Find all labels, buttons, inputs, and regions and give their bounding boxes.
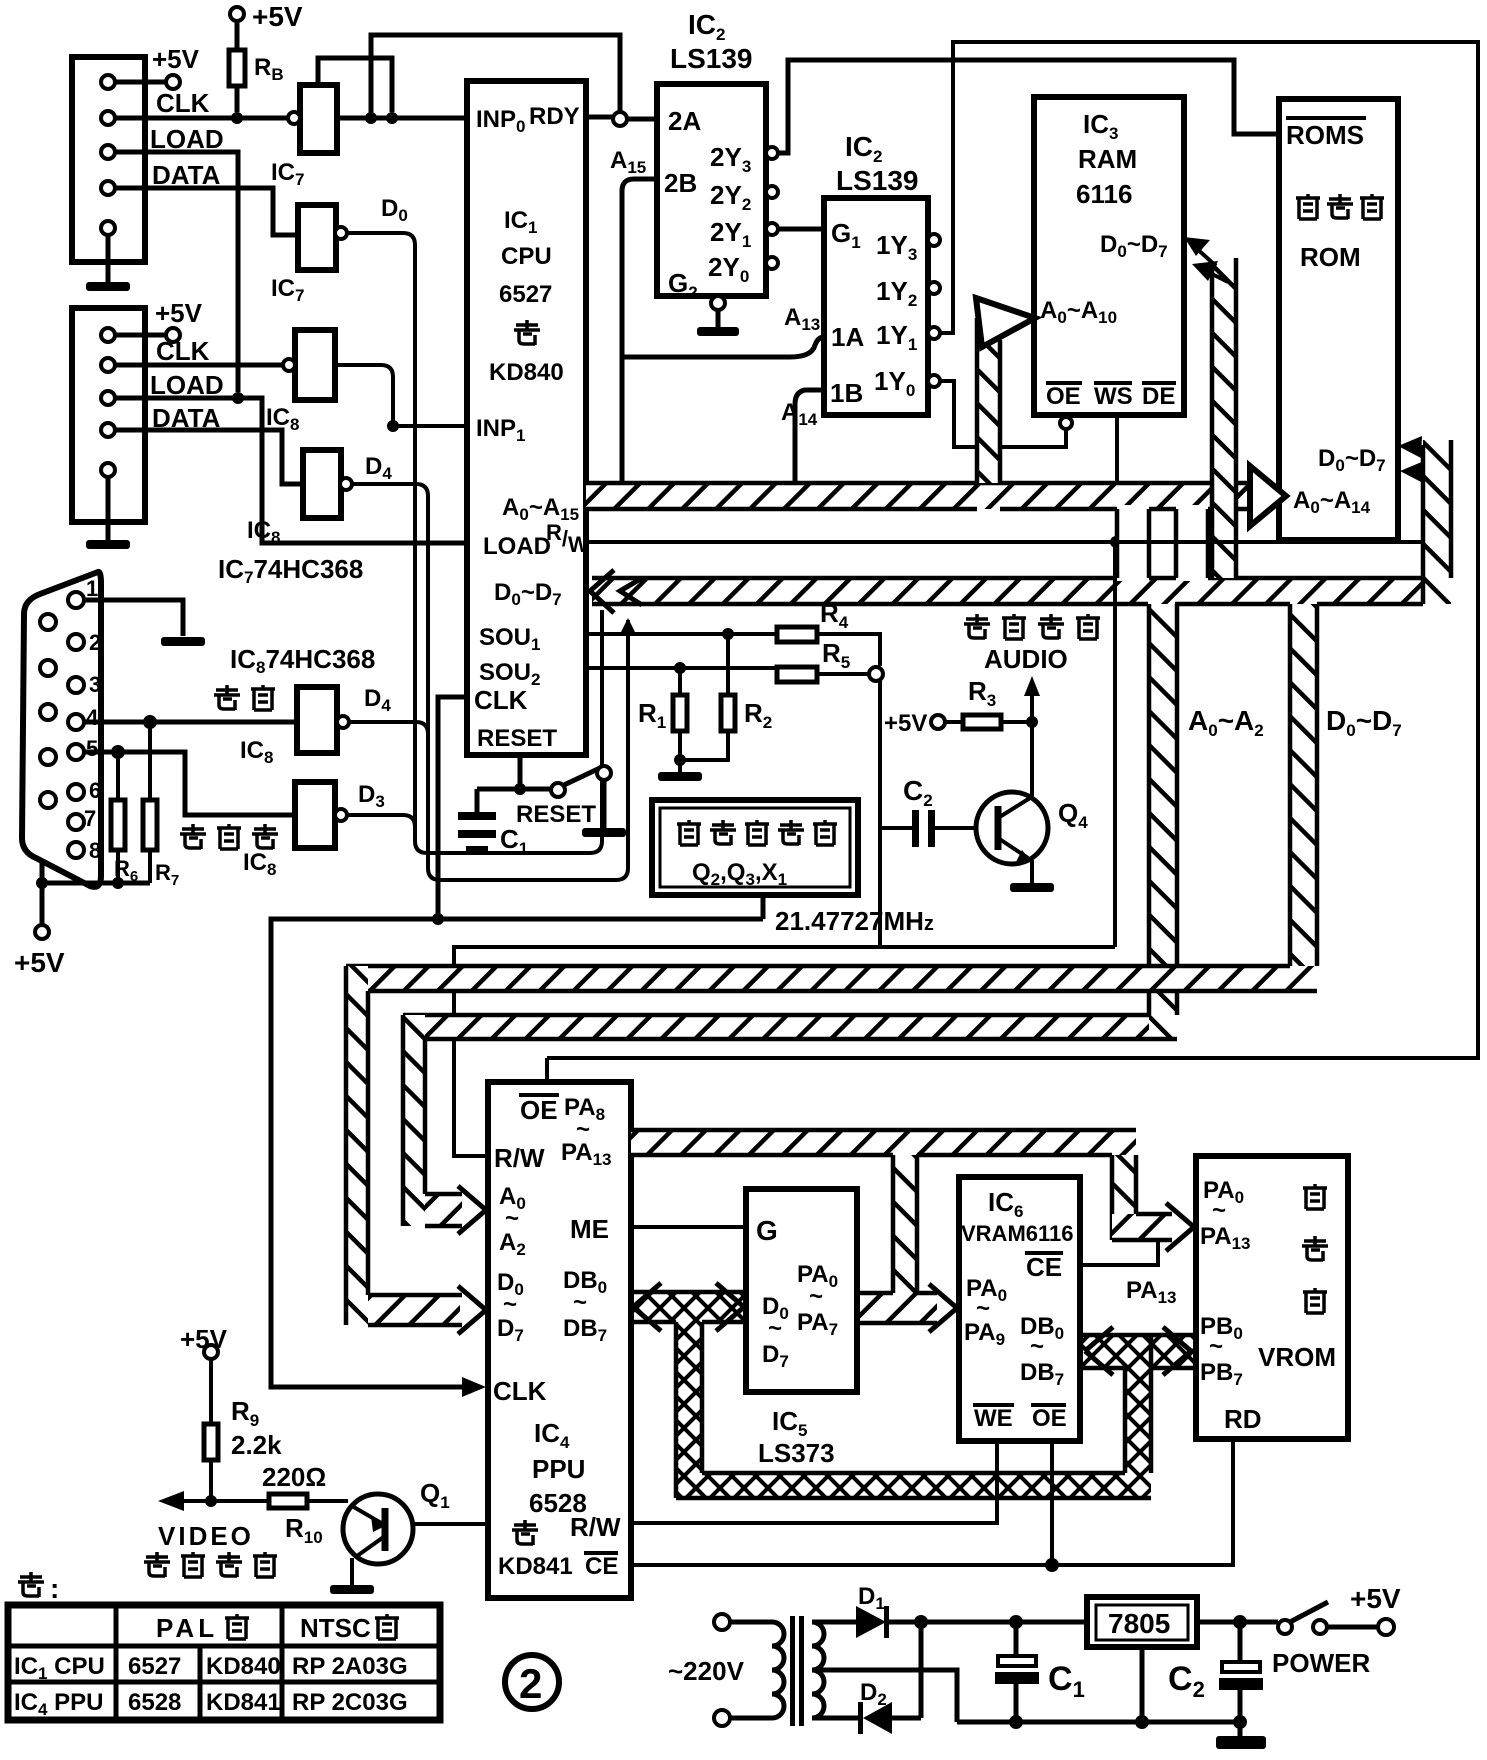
connector J2 (controller 2): [72, 308, 145, 522]
wire CE common line PPU to VROM RD: [631, 1439, 1233, 1565]
wire +5V pin J1: [115, 75, 180, 89]
resistor R3: [931, 715, 1032, 729]
bus arrow into ROM A0~A14: [1250, 466, 1286, 526]
svg-text:D0~D7: D0~D7: [1326, 705, 1402, 740]
label program card CJK rom: [1296, 194, 1384, 219]
svg-text:WS: WS: [1094, 383, 1133, 410]
buffer IC8d gun: [295, 782, 347, 848]
svg-text:KD840: KD840: [489, 359, 564, 386]
terminal +5V power: [1350, 1583, 1401, 1635]
svg-text:~: ~: [768, 1315, 782, 1342]
wire secondary top to D1: [812, 1620, 856, 1625]
wire CPU CLK to 21MHz line: [432, 697, 467, 925]
svg-text:6527: 6527: [128, 1653, 181, 1680]
pin label OE vram: [1031, 1405, 1067, 1432]
svg-text:IC4 PPU: IC4 PPU: [14, 1689, 103, 1719]
bus-2 arrow arm into PPU A0~A2: [425, 1186, 486, 1234]
bus D0~D7 horizontal: [592, 578, 1423, 604]
wire thin line to PPU RW: [454, 947, 1115, 1156]
wire from IC8b to data bus: [352, 484, 628, 880]
wire D4 from IC8a to CPU INP1: [335, 365, 467, 432]
ground J2: [86, 477, 130, 549]
wire CLK1 line to IC7 and CPU INP0: [115, 112, 467, 124]
svg-text:+5V: +5V: [14, 947, 65, 978]
xbus PPU DB to IC5 D: [631, 1283, 746, 1331]
buffer IC7a: [288, 85, 337, 153]
svg-text:5: 5: [86, 736, 98, 761]
svg-text:CE: CE: [1026, 1252, 1062, 1282]
switch POWER: [1278, 1602, 1379, 1634]
svg-text:2.2k: 2.2k: [231, 1430, 282, 1460]
svg-text:LS139: LS139: [836, 165, 919, 196]
latch IC5 LS373: [746, 1189, 857, 1392]
wire DATA2 to IC8b input: [115, 430, 303, 484]
wire PPU R/W to VRAM WE: [631, 1441, 997, 1523]
svg-text:RDY: RDY: [529, 103, 580, 130]
wire +5V pin J2: [115, 328, 180, 342]
svg-text:VRAM6116: VRAM6116: [961, 1221, 1074, 1246]
svg-text:OE: OE: [520, 1095, 558, 1125]
svg-text:220Ω: 220Ω: [262, 1462, 326, 1492]
pin label OE ppu: [519, 1095, 559, 1125]
svg-text:CLK: CLK: [156, 336, 210, 366]
decoder IC2 LS139 second: [824, 198, 928, 415]
wire RDY to LS139 2A: [586, 117, 657, 119]
node junction R4 R5: [869, 667, 883, 681]
wire 1Y0 to RAM OE: [940, 381, 1066, 447]
transistor Q1: [343, 1494, 413, 1564]
svg-text:+5V: +5V: [152, 44, 200, 74]
bus D column to ROM: [1423, 440, 1451, 604]
bus PA column down to VROM: [1112, 1155, 1136, 1240]
xbus riser to VRAM VROM bus: [1125, 1335, 1151, 1473]
svg-text:NTSC: NTSC: [300, 1613, 371, 1643]
table header PAL: [156, 1613, 249, 1643]
bus A0~A15 horizontal CPU to ROM: [586, 483, 1254, 509]
svg-text:2: 2: [89, 630, 101, 655]
bus PA8~13 from PPU: [631, 1130, 1136, 1155]
label trigger CJK: [214, 685, 275, 710]
wire SOU1 line: [586, 628, 777, 640]
wire R/W thin crossing slots: [1100, 540, 1421, 544]
svg-text:Q2,Q3,X1: Q2,Q3,X1: [692, 859, 787, 889]
svg-text:RD: RD: [1224, 1404, 1262, 1434]
svg-text:7: 7: [84, 806, 96, 831]
resistor R2: [680, 634, 735, 760]
pin bubbles 1Y3..1Y0: [928, 234, 940, 387]
node RDY/2A terminal: [613, 112, 627, 126]
wire secondary bottom to D2: [812, 1716, 858, 1721]
transformer T1 terminals: [714, 1614, 758, 1726]
bus IC5 to VRAM PA0~PA9: [857, 1284, 957, 1332]
svg-text:G: G: [756, 1215, 778, 1246]
svg-text:KD840: KD840: [206, 1653, 281, 1680]
pin label CE ppu: [584, 1553, 618, 1580]
svg-text:1: 1: [86, 576, 98, 601]
pin label OE ram: [1046, 383, 1082, 410]
svg-text:CLK: CLK: [474, 685, 528, 715]
svg-text:LS139: LS139: [670, 43, 753, 74]
bus chevron into CPU D0~D7: [590, 570, 642, 613]
svg-text:OE: OE: [1046, 383, 1081, 410]
wire A15 from address bus to 2B: [622, 179, 657, 481]
svg-text:~: ~: [505, 1205, 519, 1232]
wire R/W branch down to PPU net: [1113, 542, 1117, 947]
wire Q4 collector to R3 node: [1026, 716, 1038, 796]
svg-text:~: ~: [1212, 1197, 1226, 1224]
resistor R7: [143, 722, 157, 883]
buffer IC7b: [298, 205, 347, 270]
bus-1 arrow arm into PPU D0~D7: [368, 1286, 486, 1334]
ground pin1: [161, 637, 205, 646]
wire pin5 gun signal to IC8d: [84, 745, 295, 815]
wire pin1 to ground: [84, 600, 183, 636]
wire LOAD R/W line CPU to D column: [586, 540, 1421, 544]
svg-text:IC874HC368: IC874HC368: [230, 644, 375, 677]
buffer IC8a: [283, 330, 335, 400]
svg-text:4: 4: [86, 705, 99, 730]
svg-text:+5V: +5V: [884, 710, 927, 737]
transistor Q4: [976, 792, 1048, 864]
svg-text:ROM: ROM: [1300, 242, 1361, 272]
svg-text:LS373: LS373: [758, 1438, 835, 1468]
wire pin4 trigger to IC8c: [84, 715, 297, 729]
wire data-bus tap arrow (controller data): [620, 618, 636, 634]
ROM box program card: [1279, 99, 1398, 540]
resistor R1: [673, 668, 687, 760]
wire D0 from IC7b to data bus: [347, 233, 602, 853]
capacitor C2 audio: [912, 810, 977, 847]
wire audio node down to C2: [880, 681, 912, 828]
PPU IC4 6528/KD841: [488, 1082, 631, 1598]
svg-text:VIDEO: VIDEO: [158, 1521, 254, 1551]
transformer T1 core: [790, 1616, 804, 1726]
svg-text:CLK: CLK: [156, 88, 210, 118]
wire LOAD2 to CPU LOAD: [115, 392, 467, 543]
svg-text:RP 2C03G: RP 2C03G: [292, 1689, 408, 1716]
svg-text:~: ~: [503, 1291, 517, 1318]
svg-text:RESET: RESET: [477, 725, 557, 752]
VROM box program card: [1196, 1156, 1348, 1439]
pin G2 bubble and ground: [697, 296, 739, 336]
wire net C: 1Y1 up over right side down to OE line: [547, 42, 1478, 1058]
svg-text:KD841: KD841: [206, 1689, 281, 1716]
svg-text:6: 6: [89, 778, 101, 803]
svg-text:6527: 6527: [499, 281, 552, 308]
svg-text:CPU: CPU: [501, 243, 552, 270]
svg-text:LOAD: LOAD: [483, 533, 551, 560]
wire SOU2 line: [586, 662, 777, 674]
bus A horizontal to PPU (bus-2): [403, 1015, 1177, 1039]
wire 21.47727MHz line to PPU CLK: [271, 919, 763, 1387]
bus arrows into RAM D0~D7: [1184, 237, 1228, 282]
svg-text:6528: 6528: [128, 1689, 181, 1716]
wire 2Y1 to G1: [778, 227, 824, 232]
svg-text:KD841: KD841: [498, 1553, 573, 1580]
svg-text:2A: 2A: [668, 106, 701, 136]
pulse generator box: [652, 800, 858, 895]
svg-text:WE: WE: [974, 1405, 1013, 1432]
svg-text:~: ~: [976, 1295, 990, 1322]
regulator 7805: [1087, 1597, 1197, 1647]
RAM IC3 6116: [1034, 97, 1184, 415]
svg-text:+5V: +5V: [1350, 1583, 1401, 1614]
svg-text:R/W: R/W: [570, 1512, 621, 1542]
svg-text:+5V: +5V: [155, 298, 203, 328]
pin label ROMS: [1286, 118, 1366, 150]
CPU IC1 6527/KD840: [467, 81, 586, 755]
wire 7805 output: [1197, 1615, 1278, 1629]
pin label DE ram: [1142, 383, 1176, 410]
svg-text:OE: OE: [1032, 1405, 1067, 1432]
wire IC7a top loop: [318, 58, 392, 112]
white slot ch1 through buses: [1117, 505, 1149, 581]
diode D1: [856, 1606, 921, 1638]
svg-text:1A: 1A: [831, 322, 864, 352]
capacitor C2 power: [1219, 1622, 1263, 1722]
svg-text:1B: 1B: [830, 378, 863, 408]
svg-text:RP 2A03G: RP 2A03G: [292, 1653, 408, 1680]
svg-text:R/W: R/W: [494, 1143, 545, 1173]
resistor RB: [229, 7, 245, 112]
bus column D0~D7 mid: [1290, 604, 1317, 991]
wire A13 to 1A: [622, 337, 824, 357]
wire RAM WS to R/W line: [1110, 415, 1122, 548]
wire VIDEO output with arrow: [158, 1491, 269, 1511]
wire VRAM CE to PA13 tap: [1080, 1242, 1158, 1265]
decoder IC2 LS139 first: [657, 84, 766, 296]
svg-text:D0~D7: D0~D7: [494, 579, 562, 609]
ground R1 R2: [658, 754, 702, 781]
bus branch to RAM A0~A10: [977, 316, 1000, 483]
resistor R4: [777, 627, 880, 666]
arrowhead into PPU CLK: [462, 1377, 486, 1397]
label note CJK: [18, 1572, 59, 1604]
wire 2Y3 to ROMS net: [778, 60, 1279, 153]
svg-text:A0~A2: A0~A2: [1188, 705, 1264, 740]
svg-text:CLK: CLK: [493, 1376, 547, 1406]
svg-text:DE: DE: [1142, 383, 1175, 410]
svg-text:AUDIO: AUDIO: [984, 644, 1068, 674]
node RAM OE bubble: [1060, 417, 1072, 429]
wire A14 to 1B: [795, 390, 824, 481]
capacitor C1 power: [995, 1622, 1039, 1722]
pin label CE vram: [1025, 1252, 1063, 1282]
VRAM IC6: [959, 1177, 1080, 1441]
wire RESET pin down: [477, 755, 551, 795]
pin number labels DB9: [84, 576, 101, 863]
transformer T1 secondary winding: [812, 1622, 824, 1718]
wire ME to G: [631, 1225, 746, 1229]
svg-text:POWER: POWER: [1272, 1648, 1370, 1678]
buffer IC8b: [303, 450, 352, 518]
wire LOAD1 down to LOAD2: [115, 152, 238, 392]
wire Q4 emitter to ground: [1010, 860, 1054, 892]
value label or CJK ppu: [512, 1520, 538, 1545]
bus arrows into ROM D0~D7: [1398, 436, 1424, 483]
power +5V terminal: [35, 883, 49, 939]
wire center tap to ground rail: [812, 1670, 957, 1722]
bus D horizontal to PPU (bus-1): [346, 966, 1317, 991]
pin label WE vram: [973, 1405, 1014, 1432]
wire DC input rail to 7805: [921, 1615, 1087, 1629]
pin label WS ram: [1094, 383, 1133, 410]
svg-text:D0~D7: D0~D7: [1318, 445, 1386, 475]
svg-text:ROMS: ROMS: [1286, 120, 1364, 150]
svg-text:+5V: +5V: [252, 1, 303, 32]
svg-text:VROM: VROM: [1258, 1342, 1336, 1372]
svg-text:~220V: ~220V: [668, 1656, 745, 1686]
svg-text:~: ~: [1209, 1333, 1223, 1360]
label program card CJK vrom vertical: [1302, 1184, 1328, 1313]
svg-text:IC1 CPU: IC1 CPU: [14, 1653, 105, 1683]
wire ground rail: [957, 1715, 1247, 1729]
svg-text:8: 8: [89, 838, 101, 863]
resistor R10: [269, 1494, 348, 1508]
svg-text:~: ~: [573, 1289, 587, 1316]
wire VRAM OE down to CE line: [1045, 1441, 1059, 1572]
table header NTSC: [300, 1613, 399, 1643]
wire D4 from IC8c joins bus riser: [349, 722, 428, 734]
svg-text:~: ~: [809, 1283, 823, 1310]
connector J1 (controller 1): [72, 57, 145, 262]
svg-text:RESET: RESET: [516, 801, 596, 828]
ground J1: [86, 235, 130, 291]
transformer T1 primary winding: [758, 1622, 784, 1718]
resistor R6: [111, 752, 125, 883]
svg-text:6116: 6116: [1076, 179, 1132, 209]
figure number 2 circled: [505, 1655, 559, 1709]
value label or CJK: [514, 320, 540, 345]
wire net A: IC7 out up and over to RDY/2A: [371, 35, 620, 118]
buffer IC8c trigger: [297, 687, 349, 753]
svg-text::: :: [50, 1573, 59, 1604]
pin bubbles 2Y3 2Y2 2Y1 2Y0: [766, 147, 778, 269]
resistor R5: [777, 667, 869, 682]
wire pulse gen to 21MHz line: [761, 895, 766, 919]
label to modulator board CJK audio: [964, 614, 1100, 639]
svg-text:PAL: PAL: [156, 1613, 218, 1643]
svg-text:~: ~: [1030, 1333, 1044, 1360]
svg-text:CE: CE: [585, 1553, 618, 1580]
wire Q1 base to PPU video: [412, 1522, 488, 1526]
svg-text:D0~D7: D0~D7: [1100, 231, 1168, 261]
resistor R9: [204, 1345, 218, 1501]
svg-text:IC774HC368: IC774HC368: [218, 554, 363, 587]
wire AUDIO output arrow: [1024, 676, 1040, 722]
bus-2 left column down: [403, 1015, 425, 1226]
bus-1 left column down: [346, 966, 368, 1325]
svg-text:7805: 7805: [1108, 1608, 1170, 1639]
svg-text:PPU: PPU: [532, 1454, 585, 1484]
wire rectifier node riser: [914, 1615, 928, 1718]
svg-text:2: 2: [519, 1660, 542, 1707]
svg-text:2B: 2B: [664, 168, 697, 198]
bus PA arrow arm into VROM: [1112, 1203, 1194, 1251]
table of CPU PPU types: [8, 1605, 440, 1720]
xbus drop column: [676, 1322, 702, 1498]
bus column RAM D0~D7: [1212, 258, 1236, 578]
label to modulator board CJK video: [144, 1552, 277, 1577]
wire DATA1 to IC7 buffer input: [115, 188, 298, 235]
svg-text:RAM: RAM: [1078, 144, 1137, 174]
wire CLK2 to IC8a input: [115, 363, 287, 368]
connector DB9 game port: [22, 572, 101, 887]
wire D3 from IC8d: [347, 815, 415, 827]
diode D2: [858, 1702, 921, 1734]
bus arrow into RAM A0~A10: [976, 298, 1035, 347]
white slot ch2 through buses: [1176, 505, 1208, 581]
xbus bottom channel: [676, 1473, 1151, 1498]
svg-text:3: 3: [89, 672, 101, 697]
bus PA branch down to VRAM: [893, 1155, 917, 1293]
svg-text:21.47727MHz: 21.47727MHz: [775, 906, 934, 936]
wire 7805 ground pin: [1140, 1647, 1145, 1722]
svg-text:ME: ME: [570, 1214, 609, 1244]
label gun signal CJK: [180, 824, 278, 849]
wire Q1 emitter ground: [330, 1558, 374, 1594]
xbus VRAM DB to VROM PB: [1083, 1327, 1193, 1375]
wire +5V rail bottom of DB9: [36, 862, 150, 889]
bus column A0~A2 mid: [1149, 604, 1177, 1039]
label pulse generator CJK: [677, 820, 837, 845]
switch RESET: [551, 766, 626, 837]
capacitor C1 reset: [458, 789, 496, 853]
ground power supply: [1216, 1722, 1266, 1749]
wire PPU OE pin up: [545, 1058, 549, 1082]
